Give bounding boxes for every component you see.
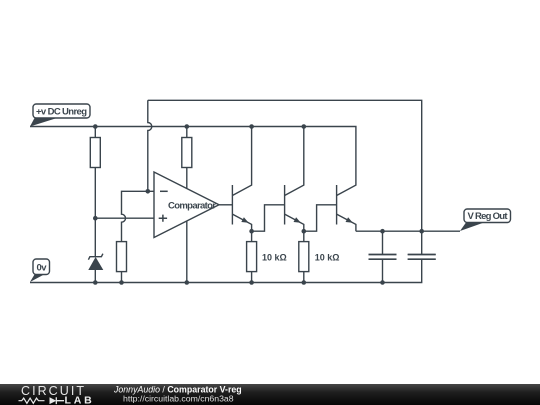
svg-text:10 kΩ: 10 kΩ [315,253,340,263]
svg-text:LAB: LAB [65,394,95,405]
svg-text:10 kΩ: 10 kΩ [262,253,287,263]
svg-text:0v: 0v [37,262,48,273]
svg-text:V Reg Out: V Reg Out [468,211,509,222]
svg-text:+v DC Unreg: +v DC Unreg [36,106,87,117]
svg-text:Comparator: Comparator [168,201,216,212]
svg-text:http://circuitlab.com/cn6n3a8: http://circuitlab.com/cn6n3a8 [123,394,234,404]
